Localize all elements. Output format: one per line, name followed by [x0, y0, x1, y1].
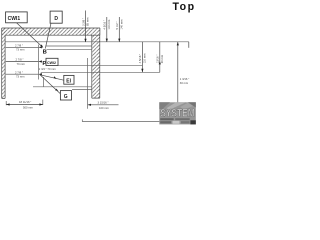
vertical dim x119.3 [115, 17, 123, 42]
leader D to B area [45, 23, 51, 48]
short vertical x43.6 [43, 77, 45, 87]
wall top band outline [2, 28, 100, 35]
leader to G [40, 75, 60, 94]
svg-text:D: D [54, 16, 58, 22]
svg-text:73 mm: 73 mm [17, 62, 26, 66]
dim row1 73mm [6, 43, 42, 51]
dim ext line x38 [37, 45, 39, 80]
wall left band hatch [2, 28, 5, 98]
line B [46, 45, 92, 47]
dim 500mm bottom [6, 100, 43, 110]
svg-text:1 3/16 ″: 1 3/16 ″ [180, 77, 189, 81]
label box CWI1 [6, 12, 28, 23]
right dim x142.4 [138, 42, 146, 73]
label box CWI2 [46, 58, 58, 65]
svg-text:73 mm: 73 mm [16, 75, 25, 79]
dim 100mm [88, 101, 119, 110]
wall partition outline [92, 35, 100, 98]
svg-text:20 mm: 20 mm [160, 54, 164, 63]
leader to EI [40, 75, 64, 80]
svg-text:2 7/8 ″: 2 7/8 ″ [15, 43, 23, 47]
svg-text:3 3/8 ″: 3 3/8 ″ [82, 18, 86, 26]
wall top band hatch [2, 28, 100, 35]
line mid 65 [58, 64, 142, 66]
svg-text:SYSTEM: SYSTEM [160, 108, 195, 120]
line mid 72 [41, 71, 160, 73]
svg-text:CWI2: CWI2 [47, 61, 56, 65]
line G row [33, 86, 92, 88]
svg-text:2 3/4 ″ 70 mm: 2 3/4 ″ 70 mm [39, 67, 57, 71]
vertical dim x85 [82, 11, 90, 43]
line G row lower [72, 89, 92, 91]
appliance rear line A [5, 41, 189, 43]
svg-text:CWI1: CWI1 [8, 16, 21, 22]
svg-text:85 mm: 85 mm [85, 17, 89, 26]
svg-text:110 mm: 110 mm [142, 53, 146, 63]
svg-text:30 mm: 30 mm [180, 81, 189, 85]
svg-text:500 mm: 500 mm [23, 105, 34, 109]
wall left band outline [2, 28, 5, 98]
logo watermark [159, 102, 196, 124]
label box G [60, 91, 71, 101]
svg-text:13/16 ″: 13/16 ″ [156, 55, 160, 64]
dim row2 73mm [6, 58, 42, 66]
wall partition column hatch [92, 35, 100, 98]
bottom outline line [82, 119, 178, 121]
right dim x160 [156, 42, 164, 73]
leader CWI1 to B [17, 23, 44, 48]
vertical dim x106.8 [103, 17, 111, 42]
svg-text:73 mm: 73 mm [16, 48, 25, 52]
svg-text:2 7/8 ″: 2 7/8 ″ [16, 58, 24, 62]
label box D [50, 11, 62, 23]
svg-text:4 5/16 ″: 4 5/16 ″ [103, 20, 107, 29]
svg-text:B: B [43, 50, 47, 56]
dim row3 73mm [6, 70, 42, 78]
right short corner x188.8 [188, 42, 190, 48]
right dim x177.8 long [177, 42, 190, 122]
svg-text:Top: Top [173, 1, 196, 13]
svg-text:G: G [64, 94, 68, 100]
vertical ext line x88 [87, 58, 89, 109]
svg-text:EI: EI [66, 79, 71, 85]
svg-text:4 5/16 ″: 4 5/16 ″ [138, 54, 142, 63]
line C [47, 49, 92, 51]
svg-text:110 mm: 110 mm [107, 19, 111, 29]
svg-text:3 15/16 ″: 3 15/16 ″ [98, 101, 109, 105]
svg-text:140 mm: 140 mm [120, 19, 124, 30]
svg-text:5 1/2 ″: 5 1/2 ″ [115, 22, 119, 30]
svg-text:100 mm: 100 mm [99, 106, 110, 110]
label box EI [64, 75, 74, 84]
svg-text:18 11/16 ″: 18 11/16 ″ [19, 100, 31, 104]
svg-text:2 7/8 ″: 2 7/8 ″ [15, 70, 23, 74]
